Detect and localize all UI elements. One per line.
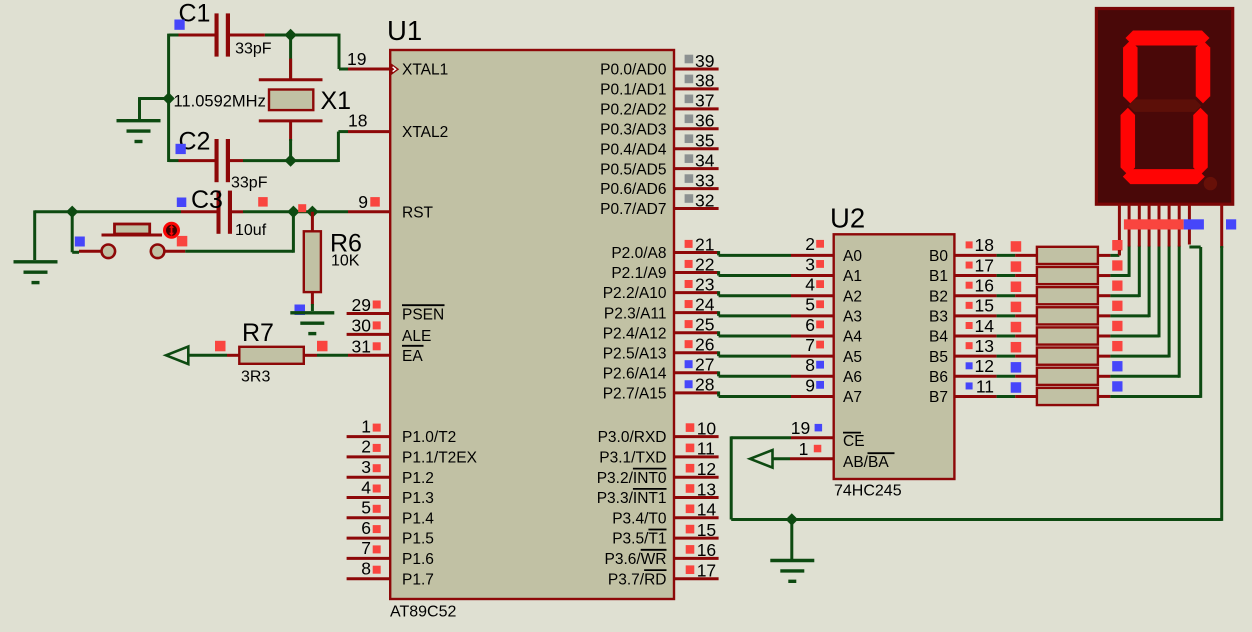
pin 9 RST lead [348, 210, 390, 213]
U2 pin 5 A3 lead [791, 314, 834, 317]
network resistor 5 left lead [1015, 335, 1037, 338]
pin 28 state square [685, 380, 693, 388]
svg-text:32: 32 [695, 190, 714, 210]
svg-text:P3.5/T1: P3.5/T1 [612, 531, 666, 548]
U2 pin 8 A6 lead [791, 375, 834, 378]
svg-text:P0.6/AD6: P0.6/AD6 [600, 181, 666, 198]
pin 12 P3.2/INT0 lead [674, 476, 719, 479]
pin 33 state square [685, 174, 694, 183]
U2 pin 15 B3 lead [954, 314, 996, 317]
button right lead [164, 250, 185, 253]
svg-text:5: 5 [805, 295, 815, 315]
pin 15 state square [686, 525, 695, 534]
pin 31 EA lead [348, 354, 390, 357]
7-segment display body [1096, 9, 1232, 205]
node E junction (button riser) [287, 206, 299, 218]
pin 38 P0.1/AD1 lead [674, 87, 719, 90]
wire P2.5 to A5 [717, 351, 720, 356]
push button actuator bar [102, 234, 163, 237]
resistor R7 right lead [304, 354, 317, 357]
clock input arrow XTAL1 [391, 63, 399, 75]
wire ground stem [790, 520, 793, 560]
pin 23 state square [685, 280, 693, 288]
display net 3 state square [1112, 281, 1122, 291]
pin 2 P1.1/T2EX lead [347, 455, 391, 458]
network resistor 7 state square [1011, 362, 1022, 373]
svg-text:B3: B3 [929, 308, 948, 325]
C1 state square [174, 20, 184, 30]
pin 15 P3.5/T1 lead [674, 537, 719, 540]
pin 10 P3.0/RXD lead [674, 435, 719, 438]
node B junction [162, 92, 174, 104]
svg-text:6: 6 [805, 315, 815, 335]
pin 17 P3.7/RD lead [674, 577, 719, 580]
network resistor 1 right lead [1098, 254, 1111, 257]
svg-text:22: 22 [695, 254, 714, 274]
wire P2.3 to A3 [717, 311, 720, 316]
wire node D to C3 [72, 210, 181, 213]
network resistor 6 [1037, 348, 1098, 365]
svg-text:B1: B1 [929, 268, 948, 285]
U2 pin 8 state square [816, 361, 824, 369]
svg-text:9: 9 [805, 375, 815, 395]
wire P2.0 to A0 [717, 251, 720, 255]
U2 pin 2 state square [816, 240, 824, 248]
pin 27 state square [685, 360, 693, 368]
resistor R6 bottom lead [311, 292, 314, 305]
network resistor 7 [1037, 368, 1098, 385]
svg-text:P3.2/INT0: P3.2/INT0 [597, 470, 667, 487]
svg-text:EA: EA [402, 348, 423, 365]
svg-text:28: 28 [695, 375, 714, 395]
svg-text:P0.0/AD0: P0.0/AD0 [600, 62, 667, 79]
svg-text:10K: 10K [331, 252, 360, 269]
network resistor 8 left lead [1015, 395, 1037, 398]
capacitor C1 [179, 13, 265, 56]
terminal arrow (AB/BA) [750, 450, 773, 468]
U2 pin 12 small state square [966, 362, 973, 369]
pin 27 P2.6/A14 lead [674, 371, 719, 374]
svg-text:33pF: 33pF [235, 40, 272, 57]
decimal point (off) [1204, 177, 1217, 190]
U2 pin 17 B1 lead [954, 274, 996, 277]
svg-text:9: 9 [358, 192, 368, 212]
wire C2 to node C [243, 159, 291, 162]
segment f [1123, 40, 1138, 103]
network resistor 4 state square [1011, 302, 1022, 313]
U2 pin 1 state square [814, 445, 822, 453]
svg-text:1: 1 [361, 416, 371, 436]
svg-text:B4: B4 [929, 329, 948, 346]
svg-text:14: 14 [975, 316, 995, 336]
svg-text:A1: A1 [843, 268, 862, 285]
svg-text:B6: B6 [929, 369, 948, 386]
svg-text:4: 4 [805, 275, 815, 295]
pin 11 state square [686, 444, 695, 453]
pin 35 state square [685, 134, 694, 143]
wire P2.7 to A7 [717, 391, 720, 396]
network resistor 7 left lead [1015, 375, 1037, 378]
resistor R6 top lead [311, 212, 314, 232]
svg-text:11: 11 [976, 376, 994, 396]
svg-text:P3.7/RD: P3.7/RD [608, 571, 667, 588]
U2 pin 4 A2 lead [791, 294, 834, 297]
svg-text:C3: C3 [191, 186, 223, 214]
U2 pin 11 small state square [966, 382, 973, 389]
display net 1 state square [1112, 240, 1122, 250]
network resistor 2 left lead [1015, 274, 1037, 277]
U2 pin 13 small state square [966, 342, 973, 349]
wire resistor4 staircase [1110, 314, 1149, 317]
wire resistor6 staircase [1110, 355, 1169, 358]
wire B4 to resistor [997, 335, 1016, 338]
button blue state square [75, 237, 85, 247]
svg-text:PSEN: PSEN [402, 307, 444, 324]
pin 16 P3.6/WR lead [674, 557, 719, 560]
U2 pin 14 B4 lead [954, 335, 996, 338]
display pin 6 [1168, 204, 1171, 246]
wire riser to XTAL2 [338, 130, 348, 133]
svg-text:4: 4 [361, 477, 371, 497]
wire left ground drop [33, 210, 36, 260]
pin 25 state square [685, 320, 693, 328]
pin 8 P1.7 lead [347, 577, 391, 580]
svg-text:8: 8 [361, 559, 371, 579]
pin 2 state square [373, 444, 381, 452]
pin 12 state square [686, 464, 695, 473]
RST net state square [298, 204, 306, 212]
network resistor 6 right lead [1098, 355, 1111, 358]
resistor R7 left lead [227, 354, 239, 357]
pin 7 P1.6 lead [347, 557, 391, 560]
svg-text:B5: B5 [929, 349, 948, 366]
wire resistor3 staircase [1110, 294, 1139, 297]
svg-text:P2.3/A11: P2.3/A11 [604, 305, 667, 322]
U2 pin 19 CE lead [791, 436, 834, 439]
U2 pin 14 small state square [966, 322, 973, 329]
pin 22 state square [685, 260, 693, 268]
wire button bottom riser [292, 212, 295, 253]
svg-text:A6: A6 [843, 369, 862, 386]
wire pin18 riser [337, 132, 340, 162]
pin 23 P2.2/A10 lead [674, 291, 719, 294]
display net 4 state square [1112, 301, 1122, 311]
network resistor 3 right lead [1098, 294, 1111, 297]
P3.2/INT0 overline [633, 468, 667, 470]
P3.3/INT1 overline [633, 488, 667, 490]
wire node B to ground [140, 97, 169, 100]
IC U1 AT89C52 body [390, 50, 674, 599]
pin 35 P0.4/AD4 lead [674, 147, 719, 150]
segment g (off) [1128, 99, 1201, 112]
svg-text:18: 18 [975, 235, 994, 255]
pin 32 state square [685, 194, 694, 203]
pin 30 ALE lead [347, 333, 391, 336]
svg-text:34: 34 [695, 150, 715, 170]
display pins state bar (blue) [1184, 219, 1204, 229]
R7 left state square [215, 341, 226, 352]
pin 1 state square [373, 424, 381, 432]
pin 21 state square [685, 240, 693, 248]
svg-text:P3.6/WR: P3.6/WR [604, 551, 666, 568]
U2 pin 7 state square [816, 341, 824, 349]
capacitor C2 [179, 139, 244, 182]
U2 pin 6 A4 lead [791, 335, 834, 338]
network resistor 6 state square [1011, 342, 1022, 353]
svg-text:15: 15 [697, 520, 716, 540]
push button interactive marker [165, 223, 179, 237]
wire resistor8 staircase [1110, 395, 1200, 398]
svg-text:16: 16 [975, 276, 994, 296]
network resistor 2 right lead [1098, 274, 1111, 277]
wire pin19 riser [338, 34, 341, 69]
pin 36 state square [685, 114, 694, 123]
pin 29 PSEN lead [347, 312, 391, 315]
pin 3 P1.2 lead [347, 476, 391, 479]
pin 37 P0.2/AD2 lead [674, 107, 719, 110]
svg-text:P0.7/AD7: P0.7/AD7 [600, 201, 666, 218]
network resistor 8 [1037, 388, 1098, 405]
pin 7 state square [373, 545, 381, 553]
pin 22 P2.1/A9 lead [674, 271, 719, 274]
wire C1 left [169, 34, 179, 37]
pin 19 XTAL1 lead [348, 68, 390, 71]
wire B5 to resistor [997, 355, 1016, 358]
svg-text:P3.4/T0: P3.4/T0 [612, 510, 667, 527]
U2 pin 3 A1 lead [791, 274, 834, 277]
svg-text:P0.4/AD4: P0.4/AD4 [600, 141, 667, 158]
U2 pin 3 state square [816, 260, 824, 268]
crystal X1 bottom lead [289, 121, 292, 141]
U2 pin 15 small state square [966, 302, 973, 309]
pin 16 state square [686, 545, 695, 554]
display pin1 junction square [1113, 240, 1123, 250]
svg-text:A3: A3 [843, 308, 862, 325]
U2 pin 1 AB/BA lead [790, 457, 834, 460]
R7 right state square [317, 341, 328, 352]
svg-text:B7: B7 [929, 389, 948, 406]
wire button bottom [185, 250, 293, 253]
svg-text:37: 37 [695, 91, 714, 111]
svg-text:23: 23 [695, 274, 714, 294]
svg-text:P3.3/INT1: P3.3/INT1 [597, 490, 667, 507]
svg-text:AB/BA: AB/BA [843, 454, 889, 471]
network resistor 4 right lead [1098, 314, 1111, 317]
svg-text:8: 8 [805, 355, 815, 375]
network resistor 3 state square [1011, 282, 1022, 293]
pin 24 state square [685, 300, 693, 308]
wire resistor5 staircase [1110, 335, 1159, 338]
svg-text:P1.2: P1.2 [402, 470, 434, 487]
pin 8 state square [373, 566, 381, 574]
network resistor 3 [1037, 287, 1098, 304]
pin 4 state square [373, 485, 381, 493]
pin 34 state square [685, 154, 694, 163]
svg-text:14: 14 [697, 500, 717, 520]
svg-text:12: 12 [975, 356, 994, 376]
network resistor 2 state square [1011, 261, 1022, 272]
svg-text:A5: A5 [843, 349, 862, 366]
PSEN overline [402, 304, 445, 306]
U2 pin 16 B2 lead [954, 294, 996, 297]
segment b [1196, 40, 1211, 103]
wire node E to node F [293, 210, 312, 213]
network resistor 1 state square [1011, 241, 1022, 252]
wire arrow to AB/BA [773, 457, 790, 460]
ground (R6) [290, 313, 334, 334]
C3 state square [177, 198, 187, 208]
pin 13 P3.3/INT1 lead [674, 496, 719, 499]
wire node C to pin18 riser [291, 159, 339, 162]
wire resistor2 staircase [1110, 274, 1129, 277]
svg-text:24: 24 [695, 294, 715, 314]
pin 4 P1.3 lead [347, 496, 391, 499]
svg-text:AT89C52: AT89C52 [390, 604, 457, 621]
svg-text:27: 27 [695, 355, 714, 375]
U2 pin 13 B5 lead [954, 355, 996, 358]
wire B3 to resistor [997, 314, 1016, 317]
C2 state square [176, 144, 186, 154]
pin 26 state square [685, 340, 693, 348]
svg-text:3: 3 [805, 254, 815, 274]
svg-text:35: 35 [695, 131, 714, 151]
svg-text:P1.1/T2EX: P1.1/T2EX [402, 450, 478, 467]
svg-text:P2.4/A12: P2.4/A12 [603, 325, 667, 342]
svg-text:U2: U2 [830, 203, 865, 234]
U2 pin 17 small state square [966, 262, 973, 269]
pin 29 state square [373, 301, 381, 309]
wire C1-left to C2-left rail [167, 34, 170, 162]
svg-text:RST: RST [402, 204, 434, 221]
pin 3 state square [373, 464, 381, 472]
svg-text:3: 3 [361, 457, 371, 477]
pin 14 state square [686, 505, 695, 514]
display net 5 state square [1112, 321, 1122, 331]
network resistor 4 [1037, 307, 1098, 324]
push button contacts [102, 245, 116, 259]
segment d [1123, 169, 1205, 184]
U2 pin 4 state square [816, 280, 824, 288]
svg-text:P2.5/A13: P2.5/A13 [603, 345, 667, 362]
wire RST rail left end [35, 210, 72, 213]
wire riser to XTAL1 [339, 68, 348, 71]
segment a [1126, 31, 1210, 46]
svg-text:ALE: ALE [402, 328, 431, 345]
resistor R7 [239, 347, 303, 364]
svg-text:P0.2/AD2: P0.2/AD2 [600, 101, 666, 118]
pin 1 P1.0/T2 lead [347, 435, 391, 438]
button red state square [177, 236, 188, 247]
svg-text:17: 17 [697, 561, 716, 581]
node A junction [284, 29, 296, 41]
svg-text:30: 30 [352, 316, 372, 336]
svg-text:2: 2 [805, 234, 815, 254]
svg-text:10: 10 [697, 418, 717, 438]
pin 34 P0.5/AD5 lead [674, 167, 719, 170]
wire P2.6 to A6 [717, 371, 720, 376]
svg-text:P1.0/T2: P1.0/T2 [402, 429, 456, 446]
svg-text:A4: A4 [843, 329, 862, 346]
wire button top riser [71, 212, 74, 253]
network resistor 3 left lead [1015, 294, 1037, 297]
svg-text:P0.3/AD3: P0.3/AD3 [600, 121, 666, 138]
svg-text:P3.1/TXD: P3.1/TXD [599, 450, 666, 467]
wire bottom ground rail [731, 518, 1221, 521]
svg-text:33pF: 33pF [231, 175, 268, 192]
wire C1 to node A [265, 34, 291, 37]
svg-text:P1.4: P1.4 [402, 510, 434, 527]
svg-text:36: 36 [695, 111, 714, 131]
wire R7 to EA pin [317, 354, 348, 357]
wire node F to RST pin [312, 210, 348, 213]
crystal X1 [259, 80, 323, 121]
svg-text:13: 13 [697, 479, 716, 499]
svg-text:R7: R7 [242, 319, 274, 347]
svg-text:XTAL2: XTAL2 [402, 124, 448, 141]
svg-text:X1: X1 [321, 87, 352, 115]
wire resistor7 staircase [1110, 375, 1179, 378]
svg-text:11.0592MHz: 11.0592MHz [174, 93, 266, 111]
svg-text:P0.1/AD1: P0.1/AD1 [600, 82, 666, 99]
display pin 3 [1138, 204, 1141, 246]
EA overline [402, 345, 424, 347]
crystal X1 top lead [289, 35, 292, 78]
network resistor 5 state square [1011, 322, 1022, 333]
svg-text:A2: A2 [843, 288, 862, 305]
svg-text:10uf: 10uf [235, 222, 267, 239]
svg-text:B2: B2 [929, 288, 948, 305]
pin 5 state square [373, 505, 381, 513]
svg-text:13: 13 [975, 336, 994, 356]
svg-text:33: 33 [695, 170, 714, 190]
resistor R6 [304, 231, 321, 292]
pin 37 state square [685, 95, 694, 104]
svg-text:P1.7: P1.7 [402, 571, 434, 588]
wire node A to pin19 riser [291, 34, 339, 37]
wire P2.2 to A2 [717, 291, 720, 296]
pin 28 P2.7/A15 lead [674, 391, 719, 394]
display pin 8 [1188, 204, 1191, 244]
U2 pin 5 state square [816, 300, 824, 308]
wire B7 to resistor [997, 395, 1016, 398]
node D junction (button top) [66, 206, 78, 218]
display pin 1 [1118, 204, 1121, 255]
push button cap [115, 224, 150, 234]
display pins state bar (red) [1124, 219, 1184, 229]
display net 2 state square [1112, 260, 1122, 270]
U2 pin 11 B7 lead [954, 395, 996, 398]
display net 6 state square [1112, 341, 1122, 351]
svg-text:P2.6/A14: P2.6/A14 [603, 365, 667, 382]
terminal arrow (EA) [166, 347, 188, 365]
svg-text:25: 25 [695, 315, 714, 335]
segment c [1193, 108, 1208, 175]
pin 6 P1.5 lead [347, 537, 391, 540]
U2 pin 6 state square [816, 321, 824, 329]
svg-text:P3.0/RXD: P3.0/RXD [598, 429, 667, 446]
pin 39 P0.0/AD0 lead [674, 68, 719, 71]
pin 6 state square [373, 525, 381, 533]
svg-text:A0: A0 [843, 248, 862, 265]
network resistor 6 left lead [1015, 355, 1037, 358]
network resistor 8 right lead [1098, 395, 1111, 398]
ground (oscillator) [117, 121, 161, 142]
pin 10 state square [686, 423, 695, 432]
ground (display common) [770, 561, 814, 582]
CE overline [843, 432, 861, 434]
pin 9 state square [370, 197, 380, 207]
network resistor 5 right lead [1098, 335, 1111, 338]
